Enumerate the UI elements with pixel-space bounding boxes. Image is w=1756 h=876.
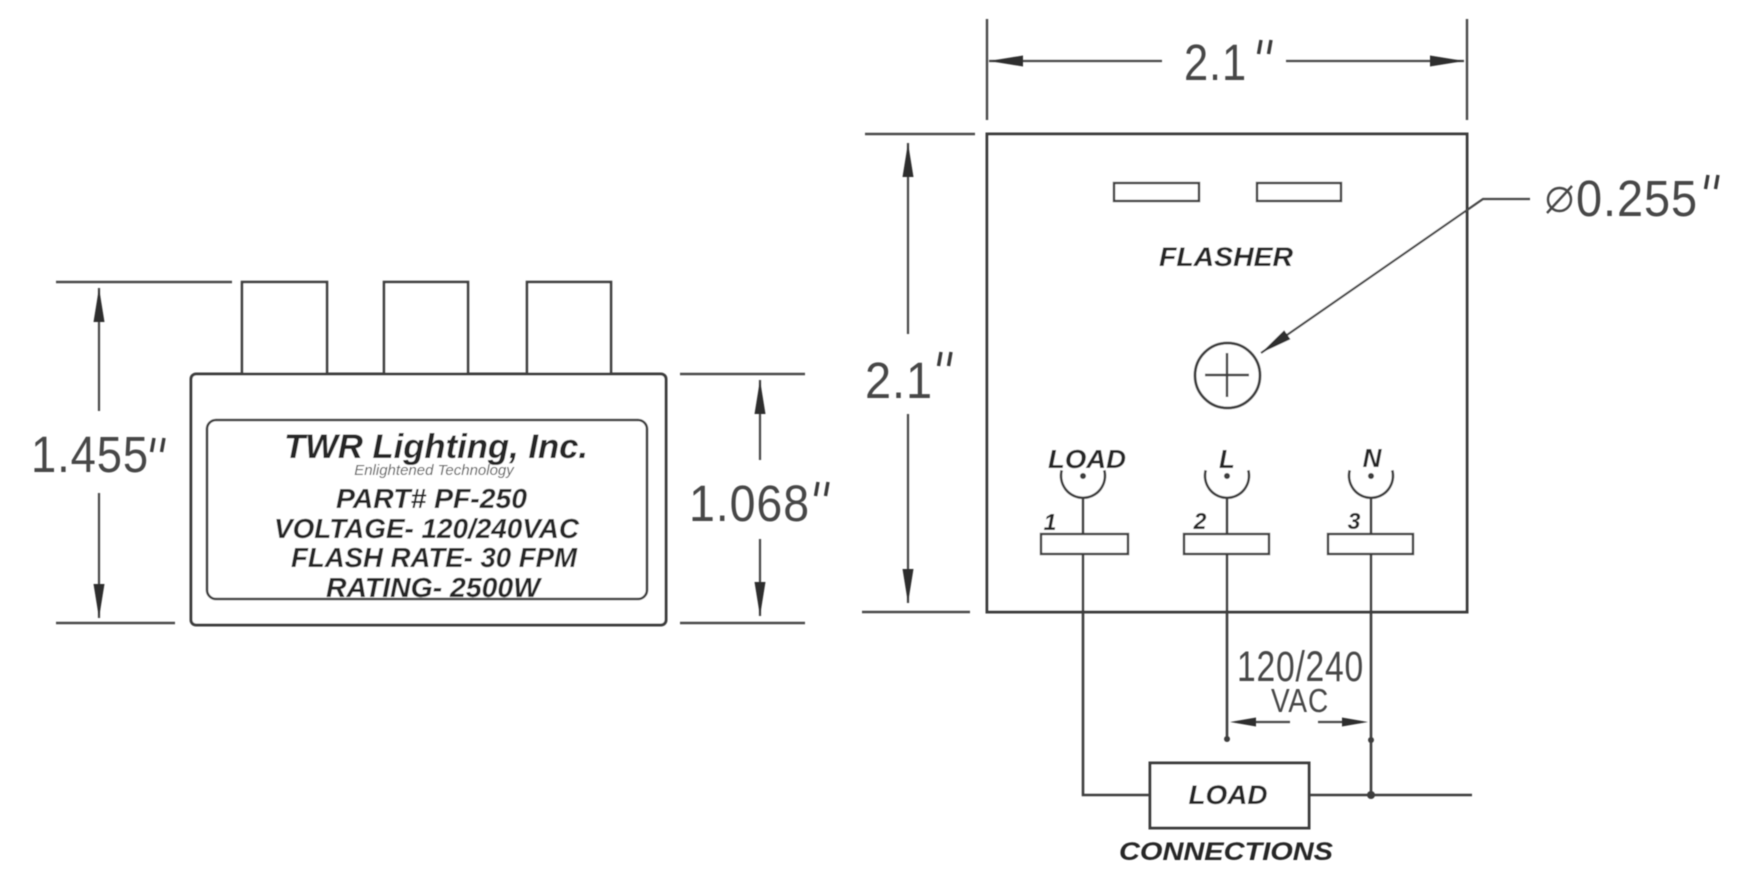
svg-text:3: 3 <box>1348 508 1361 534</box>
svg-text:LOAD: LOAD <box>1048 444 1126 474</box>
arrowhead 1.455 up <box>94 288 105 322</box>
prong 3 <box>527 282 611 374</box>
dimension line 1.455 upper segment <box>98 288 100 411</box>
svg-text:L: L <box>1219 444 1235 474</box>
svg-text:2.1: 2.1 <box>865 352 933 409</box>
120/240 dim arrow left <box>1230 718 1256 727</box>
arrowhead 1.455 down <box>94 584 105 618</box>
terminal block 2 <box>1184 534 1269 554</box>
svg-text:FLASHER: FLASHER <box>1159 242 1294 272</box>
svg-text:VOLTAGE- 120/240VAC: VOLTAGE- 120/240VAC <box>274 513 580 544</box>
svg-text:2.1: 2.1 <box>1184 34 1247 91</box>
terminal block 3 <box>1328 534 1413 554</box>
dimension line 2.1 left lower segment <box>907 414 909 603</box>
quote marks 2.1 top <box>1259 40 1262 54</box>
wire 3 witness dot <box>1368 737 1374 743</box>
svg-text:N: N <box>1363 443 1383 473</box>
wire 2 down from block <box>1226 554 1229 738</box>
wire 1 down from block <box>1083 554 1150 795</box>
svg-text:1: 1 <box>1044 509 1057 535</box>
arrowhead 2.1 top right <box>1430 56 1464 67</box>
terminal fork 2 <box>1205 470 1249 534</box>
quote marks 1.068 <box>816 482 819 496</box>
flasher box <box>987 134 1467 612</box>
extension line bottom (1.455 dim, at body bottom) <box>56 622 175 624</box>
slot 2 <box>1257 183 1341 201</box>
svg-text:LOAD: LOAD <box>1189 780 1268 810</box>
quote marks 1.455 <box>152 438 155 452</box>
arrowhead 2.1 left up <box>903 143 914 177</box>
slot 1 <box>1114 183 1199 201</box>
dimension line 2.1 top right segment <box>1286 60 1464 62</box>
svg-text:TWR Lighting, Inc.: TWR Lighting, Inc. <box>284 428 588 466</box>
svg-text:1.455: 1.455 <box>31 426 149 483</box>
leader line to hole <box>1261 199 1530 353</box>
prong 2 <box>384 282 468 374</box>
arrowhead 1.068 down <box>755 582 766 616</box>
LOAD connections box <box>1150 763 1309 828</box>
terminal fork 3 <box>1349 470 1393 534</box>
diameter symbol <box>1548 188 1571 211</box>
prong 1 <box>242 282 327 374</box>
extension line right (2.1 top dim) <box>1466 19 1468 120</box>
junction dot wire3 / output line <box>1367 791 1375 799</box>
hole cross vertical <box>1226 353 1228 397</box>
quote marks 2.1 left <box>939 352 942 366</box>
svg-text:RATING- 2500W: RATING- 2500W <box>326 572 543 603</box>
dimension line 2.1 top left segment <box>989 60 1162 62</box>
arrowhead 2.1 left down <box>903 569 914 603</box>
svg-text:2: 2 <box>1193 508 1207 534</box>
svg-text:CONNECTIONS: CONNECTIONS <box>1119 838 1333 866</box>
dimension line 1.068 lower segment <box>759 539 761 616</box>
svg-text:1.068: 1.068 <box>689 475 810 532</box>
device body <box>191 374 666 625</box>
dimension line 1.068 upper segment <box>759 380 761 460</box>
svg-text:VAC: VAC <box>1271 682 1329 719</box>
output line right of LOAD box <box>1309 794 1472 797</box>
arrowhead 2.1 top left <box>989 56 1023 67</box>
svg-text:Enlightened Technology: Enlightened Technology <box>354 462 515 479</box>
svg-text:PART# PF-250: PART# PF-250 <box>336 483 527 514</box>
extension line top (1.068 dim) <box>680 373 805 375</box>
terminal block 1 <box>1041 534 1128 554</box>
quote marks 0.255 <box>1706 175 1709 189</box>
wire 3 down from block <box>1370 554 1373 795</box>
dimension line 1.455 lower segment <box>98 493 100 618</box>
svg-text:FLASH RATE- 30 FPM: FLASH RATE- 30 FPM <box>291 542 578 573</box>
arrowhead 1.068 up <box>755 380 766 414</box>
extension line top (1.455 dim, at prong top level) <box>56 281 232 283</box>
extension line top (2.1 left dim) <box>865 133 975 135</box>
mounting hole <box>1195 343 1260 408</box>
120/240 dim arrow right <box>1342 718 1368 727</box>
extension line left (2.1 top dim) <box>986 19 988 120</box>
label plate <box>207 420 647 599</box>
svg-text:0.255: 0.255 <box>1576 170 1698 227</box>
extension line bottom (2.1 left dim) <box>862 611 970 613</box>
terminal fork 1 <box>1061 470 1105 534</box>
hole cross horizontal <box>1205 374 1249 376</box>
wire 2 end dot <box>1224 736 1230 742</box>
dimension line 2.1 left upper segment <box>907 143 909 334</box>
leader arrowhead <box>1261 330 1290 353</box>
extension line bottom (1.068 dim) <box>680 622 805 624</box>
